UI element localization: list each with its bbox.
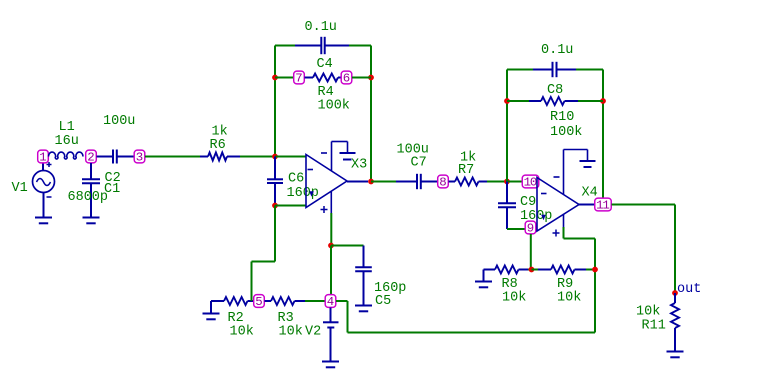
value 0.1u (C4): [305, 20, 337, 35]
wire (X4 plus path): [564, 239, 596, 270]
node 4: [325, 295, 336, 310]
junction: [504, 179, 510, 185]
svg-text:8: 8: [439, 176, 446, 190]
svg-text:4: 4: [327, 295, 334, 309]
label C8: [547, 83, 563, 98]
capacitor C4 0.1u (top): [275, 37, 371, 54]
pin (X4 bottom): [563, 214, 565, 239]
wire (X4 box left lower): [506, 101, 508, 182]
wire (X4 box right lower): [602, 101, 604, 199]
node 6: [341, 71, 352, 86]
wire: [275, 156, 306, 158]
capacitor C7: [396, 174, 438, 189]
label R4: [318, 85, 334, 100]
wire: [331, 245, 364, 247]
value 1k (R7): [460, 151, 476, 166]
label V2: [305, 325, 321, 340]
svg-text:C9: C9: [520, 195, 536, 210]
svg-text:10: 10: [524, 176, 537, 190]
wire (X4 box right): [602, 70, 604, 102]
svg-text:0.1u: 0.1u: [305, 20, 337, 35]
junction: [592, 267, 598, 273]
svg-text:5: 5: [255, 295, 262, 309]
label C7: [411, 156, 427, 171]
svg-text:16u: 16u: [55, 134, 79, 149]
capacitor C6: [267, 157, 283, 205]
power pin (X3 V-): [321, 142, 348, 172]
svg-text:R10: R10: [550, 110, 574, 125]
value 0.1u (C8): [541, 43, 573, 58]
label R6: [210, 138, 226, 153]
label C4: [317, 57, 333, 72]
wire (feedback box left): [274, 46, 276, 78]
value 6800p: [68, 190, 109, 205]
pin (X3 bottom): [330, 191, 332, 245]
svg-text:11: 11: [596, 199, 609, 213]
wire (X4 box left): [506, 70, 508, 102]
value 1k (R6): [212, 125, 228, 140]
svg-text:V2: V2: [305, 325, 321, 340]
resistor R10: [507, 97, 603, 105]
wire: [507, 181, 522, 183]
wire: [612, 204, 676, 206]
value 10k (R2): [230, 325, 254, 340]
ground (C1): [83, 218, 100, 224]
capacitor C8 0.1u (top): [507, 62, 603, 77]
svg-text:R11: R11: [642, 319, 666, 334]
value 100k (R10): [550, 125, 582, 140]
wire: [352, 77, 371, 79]
junction: [600, 98, 606, 104]
svg-text:C6: C6: [288, 172, 304, 187]
wire: [275, 205, 306, 207]
junction: [272, 75, 278, 81]
node 1: [38, 150, 49, 165]
node 8: [438, 175, 449, 190]
wire: [275, 77, 294, 79]
node 7: [294, 71, 305, 86]
junction: [529, 267, 535, 273]
pin (X3 output): [347, 181, 368, 183]
svg-text:9: 9: [527, 222, 534, 236]
capacitor C2: [97, 150, 135, 164]
wire: [240, 156, 275, 158]
label C2: [105, 171, 121, 186]
node 5: [254, 295, 265, 310]
svg-text:10k: 10k: [279, 325, 303, 340]
wire: [371, 181, 396, 183]
ground (R11): [667, 352, 684, 358]
op-amp X4: [537, 178, 579, 237]
svg-text:R7: R7: [458, 163, 474, 178]
svg-text:6800p: 6800p: [68, 190, 109, 205]
svg-text:3: 3: [136, 151, 143, 165]
svg-text:C4: C4: [317, 57, 333, 72]
label R3: [278, 311, 294, 326]
svg-text:7: 7: [295, 72, 302, 86]
wire (node5 to inverting net): [252, 206, 276, 302]
wire: [145, 156, 200, 158]
value 10k (R9): [557, 291, 581, 306]
svg-text:L1: L1: [59, 120, 75, 135]
value 160p (C6): [287, 186, 319, 201]
label L1: [59, 120, 75, 135]
voltage source V2: [323, 308, 339, 362]
wire (feedback box left lower): [274, 78, 276, 157]
svg-text:10k: 10k: [557, 291, 581, 306]
label R2: [228, 311, 244, 326]
wire (node9 down): [530, 234, 532, 270]
ground (R2): [203, 301, 220, 319]
svg-text:100k: 100k: [550, 125, 582, 140]
svg-text:C8: C8: [547, 83, 563, 98]
resistor R11: [671, 293, 679, 352]
svg-text:0.1u: 0.1u: [541, 43, 573, 58]
label C9: [520, 195, 536, 210]
wire: [674, 205, 676, 294]
value 100u (C2): [103, 114, 135, 129]
node 11: [595, 198, 612, 213]
svg-text:100u: 100u: [103, 114, 135, 129]
svg-text:2: 2: [87, 151, 94, 165]
resistor R4: [305, 74, 342, 82]
resistor R6: [200, 153, 240, 161]
junction: [504, 98, 510, 104]
ground (R8): [475, 270, 492, 288]
svg-text:160p: 160p: [287, 186, 319, 201]
value 100u (C7): [397, 143, 429, 158]
svg-text:10k: 10k: [636, 305, 660, 320]
wire (feedback box right): [370, 46, 372, 78]
wire: [330, 246, 332, 295]
value 16u: [55, 134, 79, 149]
resistor R8: [484, 266, 532, 274]
resistor R2: [211, 297, 254, 305]
capacitor C1: [82, 163, 100, 218]
junction: [368, 179, 374, 185]
resistor R7: [449, 178, 488, 186]
ground (X4 supply): [580, 161, 596, 167]
label R10: [550, 110, 574, 125]
junction: [328, 243, 334, 249]
svg-text:X3: X3: [351, 158, 367, 173]
pin (X4 output): [579, 204, 595, 206]
label R7: [458, 163, 474, 178]
node 3: [134, 150, 145, 165]
node out: [672, 290, 678, 296]
value 160p (C5): [374, 281, 406, 296]
node 2: [86, 150, 97, 165]
value 100k (R4): [318, 99, 350, 114]
voltage source V1: [33, 162, 55, 218]
ground (V1): [35, 218, 52, 224]
resistor R3: [265, 297, 306, 305]
power pin (X4 V-): [554, 150, 588, 195]
svg-text:C2: C2: [105, 171, 121, 186]
capacitor C5: [355, 246, 372, 306]
resistor R9: [532, 266, 596, 274]
svg-text:C5: C5: [375, 294, 391, 309]
label V1: [12, 181, 28, 196]
label C1: [104, 182, 120, 197]
wire (feedback box right lower): [370, 78, 372, 182]
wire: [305, 300, 325, 302]
label R9: [557, 277, 573, 292]
label C5: [375, 294, 391, 309]
label X4: [582, 186, 598, 201]
op-amp X3: [306, 155, 347, 214]
node 10: [522, 175, 539, 190]
label X3: [351, 158, 367, 173]
capacitor C9: [498, 182, 525, 230]
value 160p (C9): [520, 209, 552, 224]
junction: [368, 75, 374, 81]
svg-text:10k: 10k: [230, 325, 254, 340]
wire: [487, 181, 507, 183]
node 9: [525, 221, 536, 236]
value 10k (R11): [636, 305, 660, 320]
value 10k (R3): [279, 325, 303, 340]
ground (C5): [355, 306, 372, 312]
ground (X3 supply): [340, 153, 356, 160]
svg-text:100k: 100k: [318, 99, 350, 114]
svg-text:C7: C7: [411, 156, 427, 171]
ground (V2): [322, 362, 339, 368]
label R11: [642, 319, 666, 334]
wire (node4 to X4 bottom): [336, 270, 595, 333]
inductor L1: [49, 152, 84, 159]
svg-text:R6: R6: [210, 138, 226, 153]
svg-text:10k: 10k: [502, 291, 526, 306]
label C6: [288, 172, 304, 187]
junction: [272, 203, 278, 209]
svg-text:1: 1: [39, 151, 46, 165]
junction: [272, 154, 278, 160]
svg-text:6: 6: [343, 72, 350, 86]
label out: [677, 282, 701, 297]
value 10k (R8): [502, 291, 526, 306]
label R8: [502, 277, 518, 292]
svg-text:V1: V1: [12, 181, 28, 196]
svg-text:out: out: [677, 282, 701, 297]
